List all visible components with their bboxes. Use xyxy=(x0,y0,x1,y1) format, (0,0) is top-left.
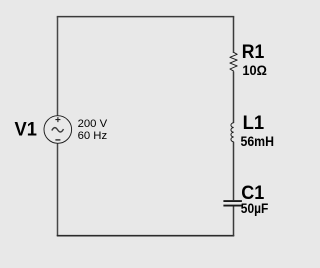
AC source V1 xyxy=(44,116,72,144)
resistor R1 symbol xyxy=(230,52,237,71)
wire bottom xyxy=(57,235,235,237)
wire left lower xyxy=(57,144,59,237)
svg-text:60 Hz: 60 Hz xyxy=(78,130,108,142)
wire left upper xyxy=(57,17,59,116)
wire right R1 to L1 xyxy=(233,71,235,123)
svg-text:200 V: 200 V xyxy=(78,118,108,130)
wire right below C1 xyxy=(233,207,235,237)
sine wave xyxy=(52,128,64,132)
svg-text:R1: R1 xyxy=(242,41,265,63)
svg-text:10Ω: 10Ω xyxy=(242,63,267,79)
capacitor C1 plates xyxy=(223,200,242,202)
svg-text:56mH: 56mH xyxy=(241,134,275,150)
svg-text:V1: V1 xyxy=(15,118,38,140)
inductor L1 symbol xyxy=(231,123,234,142)
minus terminal mark xyxy=(55,139,60,141)
wire right L1 to C1 xyxy=(233,142,235,200)
wire top xyxy=(57,16,235,18)
wire right above R1 xyxy=(233,17,235,53)
plus terminal mark xyxy=(55,117,60,122)
svg-text:L1: L1 xyxy=(243,112,265,134)
svg-text:50µF: 50µF xyxy=(241,201,269,217)
